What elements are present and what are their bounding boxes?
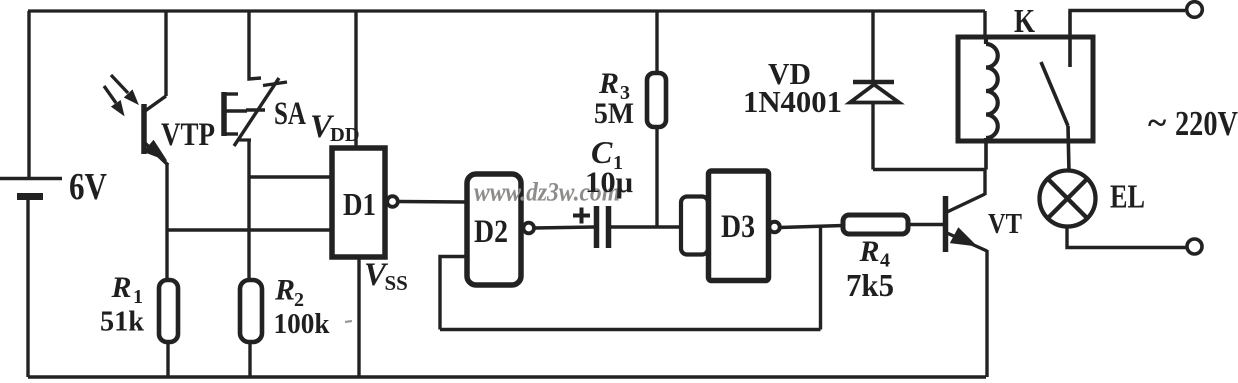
svg-text:100k: 100k: [274, 308, 331, 340]
wire VD bottom: [871, 103, 874, 170]
svg-text:R: R: [859, 235, 880, 268]
gate D1: [332, 148, 398, 257]
terminal T2: [1187, 239, 1202, 254]
svg-text:R: R: [598, 67, 619, 100]
wire top rail right segment: [1070, 9, 1185, 13]
svg-text:VT: VT: [988, 208, 1022, 240]
svg-text:7k5: 7k5: [846, 267, 894, 303]
battery GB: [0, 179, 62, 197]
wire D1 VSS pin to bottom rail: [357, 257, 360, 377]
wire feedback vertical: [819, 226, 822, 330]
wire R1 bottom: [166, 342, 169, 377]
resistor R4: [843, 215, 908, 234]
svg-text:51k: 51k: [100, 306, 145, 338]
svg-text:SS: SS: [385, 271, 408, 295]
wire D1 VDD pin: [354, 11, 357, 148]
wire bottom rail: [28, 375, 986, 379]
svg-text:C: C: [591, 134, 613, 170]
wire VT collector up: [983, 170, 986, 196]
gate D3: [709, 171, 780, 281]
label R1: [111, 271, 144, 308]
label C1 polarity plus: [573, 208, 590, 224]
wire D2 feedback input: [440, 257, 467, 330]
svg-text:VTP: VTP: [161, 117, 215, 153]
diode VD 1N4001: [850, 82, 899, 103]
svg-text:SA: SA: [274, 96, 306, 132]
svg-text:220V: 220V: [1175, 104, 1238, 143]
wire D3 output to R4: [780, 226, 843, 228]
wire VD to coil bottom node: [873, 168, 986, 171]
svg-text:1N4001: 1N4001: [743, 84, 842, 119]
wire VTP emitter down: [165, 163, 168, 280]
relay K coil: [986, 37, 998, 170]
svg-text:~: ~: [1148, 103, 1166, 142]
label C1: [591, 134, 623, 174]
wire lamp to terminal: [1067, 227, 1188, 248]
wire coil top from rail corner: [983, 11, 986, 37]
svg-text:6V: 6V: [69, 166, 107, 208]
relay K box: [958, 37, 1093, 141]
resistor R2: [240, 280, 262, 342]
phototransistor VTP: [104, 75, 168, 165]
wire VTP node to D1 lower input: [167, 228, 332, 231]
svg-text:D3: D3: [721, 209, 755, 245]
label R2: [274, 274, 304, 312]
relay K contact: [1041, 11, 1070, 172]
wire battery negative lead: [26, 196, 29, 377]
resistor R3: [647, 73, 666, 127]
resistor R1: [159, 280, 178, 342]
gate D2: [467, 174, 534, 285]
wire SA top drop: [249, 11, 261, 79]
wire SA bottom down to R2: [247, 140, 250, 280]
gate D3 input tie: [681, 197, 708, 255]
transistor VT: [946, 194, 988, 252]
wire VD top drop: [871, 11, 874, 82]
svg-text:K: K: [1014, 3, 1035, 40]
wire SA node to D1 upper input: [249, 175, 332, 178]
wire R2 bottom: [248, 342, 251, 377]
label R4: [859, 235, 891, 272]
svg-text:10μ: 10μ: [585, 166, 633, 199]
svg-text:EL: EL: [1110, 179, 1145, 216]
svg-text:R: R: [274, 274, 295, 307]
wire R4 to VT base: [908, 223, 945, 226]
label 220V: [1148, 103, 1238, 143]
wire feedback bottom: [440, 328, 821, 331]
wire VTP collector drop: [164, 11, 167, 96]
wire R3 top drop: [655, 11, 658, 73]
wire D2 output to C1: [534, 227, 594, 228]
net VDD label: [310, 109, 360, 146]
svg-text:D1: D1: [343, 186, 376, 222]
lamp EL: [1040, 171, 1096, 227]
wire VT emitter down to bottom rail: [985, 250, 988, 377]
speck: [345, 321, 352, 322]
svg-text:R: R: [111, 271, 132, 304]
svg-text:D2: D2: [474, 214, 508, 250]
wire battery positive lead: [27, 11, 30, 177]
svg-text:5M: 5M: [594, 97, 634, 130]
capacitor C1: [597, 206, 609, 248]
terminal T1: [1187, 2, 1203, 18]
wire C1 to D3 input: [611, 225, 681, 228]
switch SA: [223, 78, 287, 146]
wire top rail: [28, 9, 985, 12]
wire R3 bottom to node: [655, 127, 658, 228]
label R3: [598, 67, 630, 104]
wire D1 output to D2 input: [398, 200, 467, 204]
net VSS label: [364, 257, 408, 295]
